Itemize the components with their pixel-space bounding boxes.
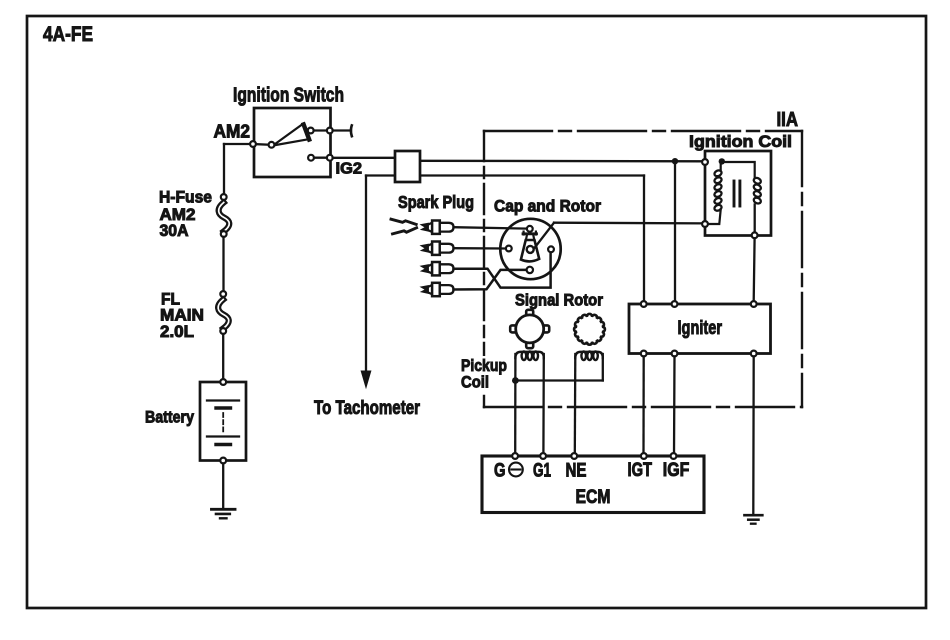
noise filter box [395,151,420,182]
svg-text:IIA: IIA [777,109,799,131]
rotor center circle [527,246,534,253]
svg-text:To Tachometer: To Tachometer [314,398,420,419]
battery [200,382,246,461]
svg-text:Ignition Coil: Ignition Coil [689,132,792,151]
wire plug1 to cap top contact [454,227,527,228]
wire plug3 crossover to cap right contact [454,252,551,287]
svg-text:G: G [494,461,506,482]
signal rotor (G) 4-lobe [510,310,549,348]
rotor neck [526,235,527,240]
coil core [733,181,736,206]
svg-text:2.0L: 2.0L [160,323,194,341]
svg-text:H-Fuse: H-Fuse [159,189,212,207]
primary winding [720,163,722,171]
rotor arm to coil wire [535,223,554,248]
cap contact left [506,246,512,252]
cap contact right [548,246,554,252]
igniter terminals bottom [641,351,647,357]
ground at igniter [745,514,763,517]
coil terminal B+ [702,159,708,165]
svg-text:Cap and Rotor: Cap and Rotor [494,198,602,216]
AM1 terminal stub [333,129,351,131]
wire igniter IGT to ECM [642,357,645,456]
svg-text:IGT: IGT [628,460,653,481]
svg-text:Coil: Coil [461,373,489,392]
svg-text:Signal Rotor: Signal Rotor [515,292,604,310]
signal rotor (NE) gear [574,314,605,345]
cap contact top [527,226,533,232]
svg-text:Battery: Battery [145,409,195,427]
ECM terminals [512,453,518,459]
svg-text:Ignition Switch: Ignition Switch [233,85,344,107]
svg-text:4A-FE: 4A-FE [43,23,93,46]
ignition coil box [705,151,771,236]
wire between fuses [222,237,224,291]
wire [428,223,433,233]
wire battery to ground [222,464,224,509]
secondary winding [724,162,755,178]
wire [428,264,433,274]
igniter terminals top [641,301,647,307]
wire [428,285,433,295]
FL MAIN 2.0L fusible link [218,300,229,329]
svg-text:Igniter: Igniter [678,318,723,339]
svg-text:IG2: IG2 [336,161,363,178]
svg-text:AM2: AM2 [214,122,251,142]
svg-text:Spark Plug: Spark Plug [398,192,474,212]
pickup coil 2 (NE) [574,354,577,455]
wire IG2 to noise filter [333,157,396,159]
wire igniter IGF to ECM [673,357,676,456]
arrowhead to tachometer [361,371,371,388]
wire coil to igniter [753,238,756,301]
distributor circle [500,219,560,279]
IIA distributor assembly dashed box [484,130,802,132]
switch contacts [250,141,256,147]
wire igniter to ground [752,357,755,516]
rotor crossbar [523,232,537,235]
wire plug4 crossover to cap bottom contact [454,270,527,290]
spark gap symbol [391,219,416,224]
label Pickup Coil [459,356,509,392]
junction node (igniter power) [672,158,678,164]
wire noise filter to ignition coil [419,160,705,163]
svg-text:G1: G1 [533,461,551,482]
cap contact bottom [527,267,533,273]
ignition switch box [254,108,331,177]
junction node pickup common [512,377,519,384]
wire [428,244,433,254]
wire to tachometer / igniter IGT line [366,174,644,176]
svg-text:MAIN: MAIN [160,307,204,325]
common ground wire of pickup coils [515,379,602,381]
wire fuse to battery [222,334,224,379]
ground below battery [212,508,236,511]
wire AM2 from ignition switch to H-Fuse [224,143,253,145]
H-Fuse AM2 30A fuse [219,203,230,232]
svg-text:IGF: IGF [663,460,690,481]
switch contact links [253,143,272,146]
coil terminal primary to igniter [752,232,758,238]
pickup coil 1 (G) [514,354,517,455]
svg-text:30A: 30A [160,222,189,240]
wire junction down to igniter [674,161,676,301]
wire rotor to ignition coil secondary [554,222,705,225]
igniter box [629,304,771,354]
coil terminal secondary out [702,221,708,227]
ECM box [482,456,704,513]
svg-text:ECM: ECM [576,487,611,508]
pin symbol G- (circled minus) [509,463,523,477]
junction node coil + [719,158,725,164]
svg-text:NE: NE [566,461,587,482]
rotor body [521,240,539,261]
wire plug2 to cap left contact [454,247,506,250]
switch lever [273,124,309,146]
